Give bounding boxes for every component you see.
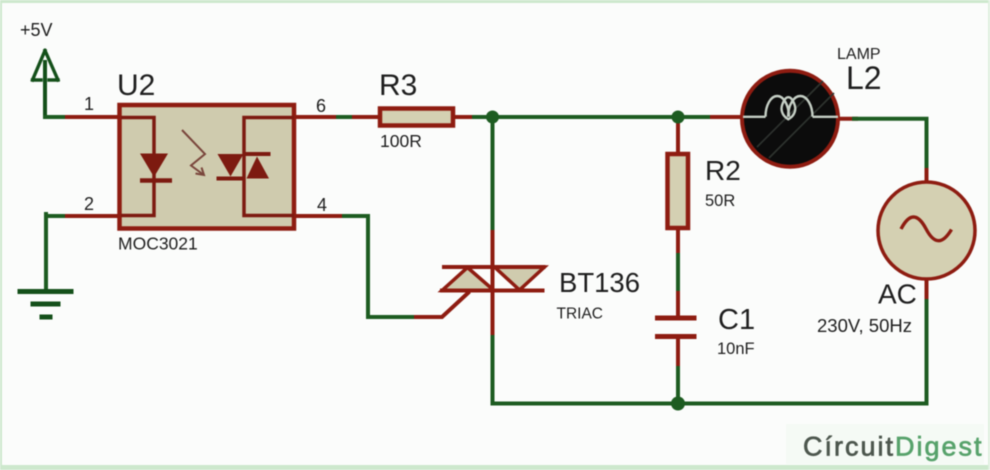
svg-text:2: 2 [84,194,94,214]
svg-text:+5V: +5V [20,20,53,40]
svg-text:100R: 100R [380,131,422,151]
svg-text:L2: L2 [846,60,882,96]
svg-text:U2: U2 [117,69,155,102]
svg-text:R3: R3 [379,69,417,102]
svg-text:C1: C1 [718,304,755,336]
svg-text:MOC3021: MOC3021 [118,234,198,254]
svg-text:BT136: BT136 [559,267,640,298]
svg-text:50R: 50R [705,192,735,210]
svg-text:1: 1 [84,94,94,114]
svg-text:230V, 50Hz: 230V, 50Hz [817,315,912,336]
svg-text:AC: AC [878,279,917,310]
svg-text:TRIAC: TRIAC [557,306,604,323]
svg-text:10nF: 10nF [717,340,755,358]
svg-text:6: 6 [316,96,326,116]
svg-text:4: 4 [317,195,327,215]
svg-text:CírcuitDigest: CírcuitDigest [803,432,984,462]
svg-text:R2: R2 [705,155,741,186]
